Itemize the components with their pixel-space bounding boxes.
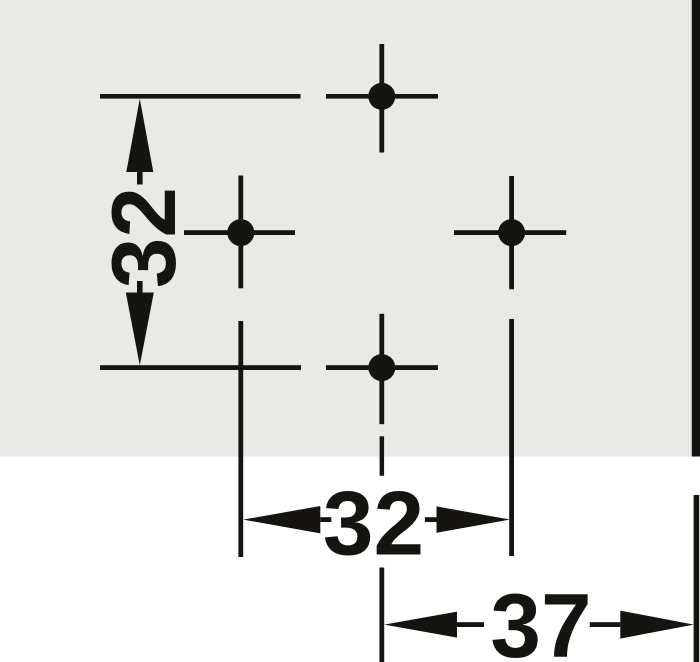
svg-text:37: 37 xyxy=(490,576,591,662)
horizontal dimension 37: left shaft xyxy=(457,622,484,627)
hole cross R: center dot xyxy=(498,219,525,246)
hole cross T: vertical arm xyxy=(379,44,384,153)
horizontal dimension 32: left arrow xyxy=(243,506,320,533)
horizontal dimension 32: left shaft xyxy=(320,517,331,522)
horizontal dimension 32: right shaft xyxy=(425,517,437,522)
panel (grey board face) xyxy=(0,0,692,457)
hole cross L: center dot xyxy=(227,219,254,246)
center line solid below label 32 (also 37 reference) xyxy=(379,568,384,662)
hole cross R: horizontal arm xyxy=(454,230,566,235)
horizontal dimension 37: right shaft xyxy=(590,622,621,627)
panel front edge (black band) xyxy=(692,0,700,457)
extension line right edge (panel edge reference) xyxy=(694,495,700,662)
hole cross T: horizontal arm xyxy=(326,94,438,99)
extension line right vertical (from hole R) xyxy=(509,319,514,556)
svg-text:32: 32 xyxy=(323,474,424,575)
hole cross L: horizontal arm xyxy=(184,230,295,235)
vertical dimension 32: upper shaft xyxy=(137,172,143,185)
horizontal dimension 32: right arrow xyxy=(437,506,511,532)
hole cross B: vertical arm xyxy=(379,314,384,424)
hole cross R: vertical arm xyxy=(509,176,514,289)
hole cross B: horizontal arm xyxy=(326,365,438,370)
vertical dimension 32: up arrow xyxy=(126,99,153,172)
center line dash below hole B xyxy=(380,436,385,476)
hole cross T: center dot xyxy=(368,83,395,110)
horizontal dimension 37: left arrow xyxy=(384,612,457,638)
svg-text:32: 32 xyxy=(94,187,195,288)
extension line bottom-left (row of bottom hole) xyxy=(100,365,301,370)
vertical dimension 32: down arrow xyxy=(126,293,154,366)
hole cross B: center dot xyxy=(368,354,395,381)
extension line top (row of top hole) xyxy=(100,94,301,99)
vertical dimension 32: lower shaft xyxy=(137,281,143,293)
hole cross L: vertical arm xyxy=(238,176,243,289)
extension line left vertical (from hole L) xyxy=(238,321,243,557)
horizontal dimension 37: right arrow xyxy=(620,611,694,639)
